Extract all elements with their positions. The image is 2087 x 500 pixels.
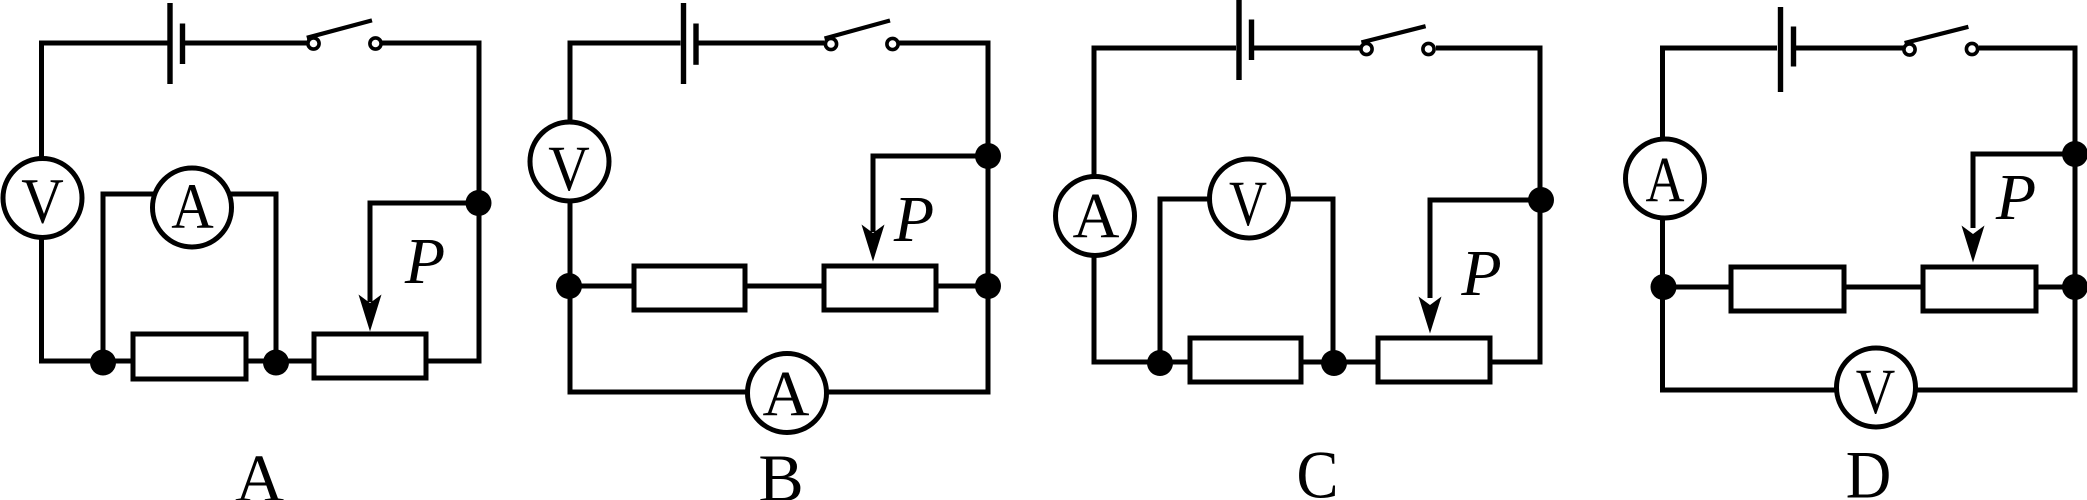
circuit C: wiper feed wire xyxy=(1430,200,1541,298)
circuit A: wiper arrow xyxy=(359,295,382,332)
circuit D: rheostat P track xyxy=(1923,267,2036,311)
circuit A: ammeter A xyxy=(153,168,232,247)
circuit D: switch lever xyxy=(1905,27,1969,43)
circuit A: junction dot wiper tap xyxy=(466,190,492,216)
circuit D: junction dot wiper tap xyxy=(2062,141,2087,167)
circuit C: main loop wire xyxy=(1094,48,1540,362)
circuit C: junction dot wiper tap xyxy=(1528,187,1554,213)
svg-text:D: D xyxy=(1846,437,1892,500)
svg-text:V: V xyxy=(548,133,590,205)
circuit B: middle branch wire xyxy=(569,284,988,289)
circuit D: wiper arrow xyxy=(1962,226,1985,263)
circuit B: switch right contact xyxy=(887,38,898,49)
svg-text:A: A xyxy=(763,359,810,431)
circuit A: battery cell short plate (-) xyxy=(180,24,185,65)
svg-text:A: A xyxy=(235,440,284,500)
circuit A: battery cell long plate (+) xyxy=(167,3,172,84)
svg-text:P: P xyxy=(1460,237,1501,310)
circuit B: wiper feed wire xyxy=(873,156,988,232)
circuit B: wire battery to switch xyxy=(699,41,825,46)
svg-text:P: P xyxy=(1995,161,2036,234)
circuit A: voltmeter V xyxy=(3,159,82,238)
circuit C: battery cell long plate (+) xyxy=(1236,0,1241,80)
svg-text:A: A xyxy=(1646,145,1685,217)
circuit D: main loop wire xyxy=(1663,48,2076,390)
circuit B: junction dot wiper tap xyxy=(975,143,1001,169)
circuit C: battery cell short plate (-) xyxy=(1249,20,1254,61)
svg-text:P: P xyxy=(404,225,445,298)
circuit A: wire battery to switch xyxy=(185,41,307,46)
circuit C: switch right contact xyxy=(1423,43,1434,54)
circuit D: switch right contact xyxy=(1966,43,1977,54)
svg-text:B: B xyxy=(758,440,803,500)
svg-text:A: A xyxy=(171,171,214,243)
circuit B: voltmeter V xyxy=(530,122,609,201)
circuit A: junction dot left xyxy=(90,350,116,376)
circuit A: switch left contact xyxy=(308,38,319,49)
circuit A: rheostat P track xyxy=(314,334,426,378)
circuit B: resistor R xyxy=(634,266,745,310)
circuit D: resistor R xyxy=(1731,267,1844,311)
circuit C: wire battery to switch xyxy=(1254,46,1360,51)
circuit D: voltmeter V xyxy=(1837,348,1916,427)
circuit C: switch left contact xyxy=(1361,43,1372,54)
circuit A: junction dot right xyxy=(263,350,289,376)
circuit B: switch left contact xyxy=(825,38,836,49)
circuit D: ammeter A xyxy=(1626,139,1705,218)
circuit C: junction dot left xyxy=(1147,350,1173,376)
circuit B: wiper arrow xyxy=(862,225,885,262)
svg-text:P: P xyxy=(893,183,934,256)
svg-text:V: V xyxy=(21,166,64,238)
circuit B: rheostat P track xyxy=(824,266,936,310)
circuit C: switch lever xyxy=(1361,26,1425,42)
circuit C: junction dot right xyxy=(1321,350,1347,376)
circuit B: battery cell long plate (+) xyxy=(681,3,686,84)
circuit A: ammeter parallel branch wire xyxy=(103,194,276,361)
circuit D: middle branch wire xyxy=(1663,285,2075,290)
svg-text:A: A xyxy=(1073,181,1120,253)
circuit C: ammeter A xyxy=(1056,177,1135,256)
circuit B: junction dot right xyxy=(975,273,1001,299)
circuit D: battery cell short plate (-) xyxy=(1791,27,1796,67)
circuit B: junction dot left xyxy=(556,273,582,299)
circuit B: ammeter A xyxy=(748,354,827,433)
circuit C: resistor R xyxy=(1190,338,1301,382)
circuit C: voltmeter V xyxy=(1210,159,1289,238)
circuit B: switch lever xyxy=(825,21,891,39)
circuit D: battery cell long plate (+) xyxy=(1778,7,1783,92)
circuit D: junction dot right xyxy=(2062,274,2087,300)
svg-text:V: V xyxy=(1856,356,1896,428)
circuit D: junction dot left xyxy=(1651,274,1677,300)
circuit A: wire switch to right + right side down xyxy=(382,43,480,361)
circuit B: battery cell short plate (-) xyxy=(693,24,698,65)
circuit A: resistor R xyxy=(133,334,246,379)
svg-text:V: V xyxy=(1229,168,1267,240)
circuit C: voltmeter parallel branch wire xyxy=(1160,199,1333,362)
circuit A: wiper feed wire xyxy=(370,203,479,302)
circuit D: wire battery to switch xyxy=(1796,46,1904,51)
circuit D: wiper feed wire xyxy=(1973,154,2075,228)
circuit D: switch left contact xyxy=(1904,44,1915,55)
circuit C: wiper arrow xyxy=(1419,297,1442,334)
circuit A: switch lever xyxy=(307,20,372,37)
svg-text:C: C xyxy=(1297,437,1339,500)
circuit B: main loop wire xyxy=(570,43,988,392)
circuit C: rheostat P track xyxy=(1378,338,1490,382)
circuit A: switch right contact xyxy=(370,38,381,49)
circuit A: left + bottom wire run xyxy=(42,43,315,361)
